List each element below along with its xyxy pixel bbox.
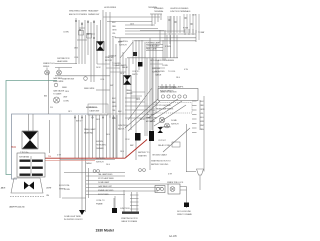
svg-text:GAS TANK: GAS TANK <box>53 77 63 80</box>
svg-text:HCD: HCD <box>11 147 16 149</box>
svg-text:WIRE TO FRAME: WIRE TO FRAME <box>177 213 192 216</box>
svg-text:AND MOTOR WIRES: AND MOTOR WIRES <box>69 13 88 16</box>
svg-text:AT FRAME: AT FRAME <box>146 120 156 123</box>
spark plugs <box>45 68 88 81</box>
svg-text:TO BAT: TO BAT <box>198 31 205 34</box>
instrument panel box <box>158 89 198 101</box>
text labels dash comb <box>57 121 106 164</box>
svg-text:INSTRUMENT PANEL LAMPS: INSTRUMENT PANEL LAMPS <box>158 86 184 89</box>
svg-text:JADE: JADE <box>1 187 6 190</box>
spare tire lamp circle <box>168 184 187 194</box>
svg-text:RED: RED <box>112 26 117 28</box>
battery lead right <box>186 187 188 209</box>
svg-text:BEAM IND: BEAM IND <box>84 132 93 135</box>
svg-text:HORN BTN: HORN BTN <box>96 145 106 147</box>
svg-text:18 G: 18 G <box>176 77 180 79</box>
svg-text:TAIL LAMP FEED: TAIL LAMP FEED <box>98 173 113 176</box>
harness diagonals to instrument panel <box>148 99 186 126</box>
svg-text:CONN: CONN <box>63 101 69 103</box>
svg-text:LIGHTING FUSE AND: LIGHTING FUSE AND <box>170 7 189 10</box>
horn feed wires <box>29 114 34 131</box>
svg-text:LIGHTING: LIGHTING <box>119 41 128 43</box>
starter cable towers <box>124 190 139 212</box>
svg-text:WIRE CONN: WIRE CONN <box>146 118 157 120</box>
svg-text:FUSE AND: FUSE AND <box>154 7 164 10</box>
text labels mid <box>43 32 178 114</box>
wire harness: right-side verticals <box>152 16 204 172</box>
svg-text:BATTERY TO: BATTERY TO <box>138 151 150 154</box>
svg-text:BRN: BRN <box>112 118 117 120</box>
svg-text:IN CENTER OF BODY: IN CENTER OF BODY <box>64 219 83 221</box>
svg-text:JUNCTION: JUNCTION <box>118 125 128 127</box>
svg-text:FEED: FEED <box>62 87 68 89</box>
svg-text:CABLE: CABLE <box>155 74 162 77</box>
svg-text:COWL TO: COWL TO <box>96 200 105 202</box>
svg-text:DASH: DASH <box>86 162 92 165</box>
svg-text:IGNITION: IGNITION <box>152 68 161 70</box>
svg-text:GROUND CABLE: GROUND CABLE <box>152 154 168 157</box>
svg-text:DOME LAMP: DOME LAMP <box>98 181 110 184</box>
svg-text:AMMETER: AMMETER <box>86 106 96 109</box>
svg-text:MOTOR: MOTOR <box>105 60 113 62</box>
svg-text:SW: SW <box>110 85 113 87</box>
svg-text:RELAY: RELAY <box>122 66 129 69</box>
svg-text:GAS TANK UNIT: GAS TANK UNIT <box>98 185 113 188</box>
voltage regulator box <box>17 153 45 177</box>
svg-text:DOME: DOME <box>171 120 177 122</box>
terminal comb group 1 <box>150 14 162 26</box>
terminal comb group 2 <box>168 16 180 33</box>
ammeter <box>54 83 60 103</box>
blue-gray wire rectangle <box>12 114 96 179</box>
svg-text:CONN: CONN <box>64 189 70 191</box>
svg-text:TO COIL: TO COIL <box>168 71 176 73</box>
svg-text:HORN WIRES: HORN WIRES <box>104 7 117 9</box>
svg-text:BRN: BRN <box>200 121 205 123</box>
wire: long horizontal runs top right <box>103 17 196 42</box>
svg-text:SPARE TIRE LOCK: SPARE TIRE LOCK <box>167 181 184 184</box>
wire harness: center vertical bundle <box>103 10 158 170</box>
svg-text:BLOCK: BLOCK <box>118 129 125 131</box>
svg-text:FEED WIRE: FEED WIRE <box>84 88 95 90</box>
frame rail vertical right <box>186 124 188 172</box>
tail lamp housing <box>1 178 53 209</box>
svg-text:DOME FEED: DOME FEED <box>160 127 172 129</box>
wire: mid horizontal runs <box>55 35 178 160</box>
red horn feed wire <box>45 140 147 159</box>
svg-text:TO DASH: TO DASH <box>53 93 62 96</box>
svg-text:LAMP PIN 206 230: LAMP PIN 206 230 <box>9 206 25 209</box>
svg-text:DASH UNIT: DASH UNIT <box>90 110 101 113</box>
text labels top right <box>112 7 196 39</box>
svg-text:RELAY CONN: RELAY CONN <box>158 144 170 147</box>
dome lamp bowtie small <box>158 127 164 133</box>
arrow terminal <box>79 210 85 215</box>
svg-text:16 G: 16 G <box>106 164 110 166</box>
stop light switch dashed box <box>154 103 192 114</box>
svg-text:STARTER SW: STARTER SW <box>62 78 74 81</box>
svg-text:4 TH: 4 TH <box>168 174 173 176</box>
svg-text:CONN: CONN <box>162 65 168 67</box>
svg-text:PARK LAMP: PARK LAMP <box>146 48 157 51</box>
wire harness: dash panel comb <box>74 115 117 158</box>
svg-text:JUNCTION: JUNCTION <box>120 208 130 210</box>
svg-text:4 TH: 4 TH <box>57 155 62 157</box>
svg-text:JUNCTION TERMINALS: JUNCTION TERMINALS <box>170 10 191 13</box>
svg-text:16 G: 16 G <box>120 73 124 75</box>
svg-text:STOP LIGHT AND: STOP LIGHT AND <box>156 104 172 107</box>
svg-text:RED: RED <box>200 105 205 107</box>
light switch pivot blob <box>133 52 137 56</box>
green lighting circuit wire rectangle <box>6 81 57 175</box>
svg-text:CONDUIT: CONDUIT <box>108 56 117 58</box>
terminal comb group 3 <box>184 14 199 40</box>
svg-text:DIMMER: DIMMER <box>96 148 104 150</box>
text labels right column extra <box>146 86 184 126</box>
cutout relay blob <box>135 133 141 141</box>
svg-text:B R G Y: B R G Y <box>76 121 83 123</box>
starter bowtie symbol <box>97 42 105 51</box>
svg-text:GRN: GRN <box>200 109 205 111</box>
svg-text:R H HEADLAMP: R H HEADLAMP <box>146 42 161 45</box>
svg-text:GRN: GRN <box>112 106 117 108</box>
svg-text:DIMMER SW: DIMMER SW <box>88 14 99 16</box>
svg-text:LIGHT: LIGHT <box>46 188 52 190</box>
svg-text:REAR LAMP WIRES: REAR LAMP WIRES <box>156 108 174 111</box>
svg-text:FEED WIRE: FEED WIRE <box>53 81 64 83</box>
junction blob bottom <box>112 208 117 213</box>
misc small wiring annotations <box>50 28 189 167</box>
svg-text:TERMINAL: TERMINAL <box>154 10 164 13</box>
wire: ladder lines bottom center <box>62 168 168 208</box>
svg-text:L H HEADLAMP: L H HEADLAMP <box>146 45 160 48</box>
svg-text:GAS GAUGE: GAS GAUGE <box>53 90 65 93</box>
terminal label box <box>88 104 108 115</box>
svg-text:WINDSHIELD WIPER: WINDSHIELD WIPER <box>69 11 88 13</box>
svg-text:COWL: COWL <box>64 185 71 187</box>
svg-text:4 THW: 4 THW <box>165 46 171 48</box>
svg-text:INSTRUMENTS: INSTRUMENTS <box>160 91 174 93</box>
svg-text:RED: RED <box>112 102 117 104</box>
svg-text:BODY FEED: BODY FEED <box>98 194 109 196</box>
svg-text:LAMPS: LAMPS <box>126 92 133 95</box>
svg-text:SPARK PLUG: SPARK PLUG <box>43 62 55 65</box>
extra tie wires <box>97 64 165 96</box>
svg-text:CONN: CONN <box>63 32 69 34</box>
fuse blob <box>149 131 154 141</box>
svg-text:STARTER: STARTER <box>138 155 147 158</box>
svg-text:DOME LIGHT WIRE: DOME LIGHT WIRE <box>64 216 81 218</box>
svg-text:LIGHTING: LIGHTING <box>96 158 105 160</box>
svg-text:NO 14 GROUND: NO 14 GROUND <box>177 211 192 213</box>
svg-text:4 TH: 4 TH <box>184 69 189 71</box>
harness connector blocks <box>79 31 84 36</box>
svg-text:HEADLAMP: HEADLAMP <box>88 10 99 13</box>
distributor lead wire <box>48 72 50 114</box>
ignition coil bowtie symbol <box>124 76 132 85</box>
svg-text:NO 14 BLACK WIRE ASSEM: NO 14 BLACK WIRE ASSEM <box>150 59 174 62</box>
svg-text:PANEL: PANEL <box>126 89 133 92</box>
svg-text:16 W: 16 W <box>140 119 144 121</box>
horn bowtie symbol large <box>22 131 38 149</box>
svg-text:GRN: GRN <box>112 30 117 32</box>
svg-text:FUSE: FUSE <box>183 28 189 30</box>
wire harness: top-left vertical bundle <box>60 18 101 212</box>
right margin wire labels with ticks <box>192 101 197 133</box>
ground cable diagonal <box>163 128 190 152</box>
svg-text:STARTING MOTOR: STARTING MOTOR <box>121 217 138 220</box>
svg-text:14 W: 14 W <box>96 67 100 69</box>
relay box small <box>172 142 180 147</box>
svg-text:12 W: 12 W <box>125 139 129 141</box>
svg-text:DISTR: DISTR <box>132 74 138 76</box>
wire: diagonals <box>120 42 160 131</box>
svg-text:SW BAT AM: SW BAT AM <box>19 155 29 158</box>
svg-text:STOP LAMP FEED: STOP LAMP FEED <box>98 177 114 180</box>
svg-text:STARTING MOTOR TO: STARTING MOTOR TO <box>151 160 171 163</box>
svg-text:TAIL LAMP: TAIL LAMP <box>146 113 156 116</box>
svg-text:FRAME: FRAME <box>96 203 103 206</box>
wire down to regulator <box>49 120 51 153</box>
cowl lamps with X <box>159 117 169 128</box>
svg-text:SWITCH: SWITCH <box>119 45 127 47</box>
trunk connector with pins <box>155 186 165 193</box>
svg-text:1930 Model: 1930 Model <box>96 229 114 233</box>
svg-text:COIL TO: COIL TO <box>132 71 140 73</box>
svg-text:FRAME GROUND: FRAME GROUND <box>98 189 114 192</box>
text labels top left <box>69 6 158 44</box>
svg-text:CUTOUT: CUTOUT <box>158 140 167 142</box>
junction block small square <box>138 62 143 67</box>
svg-text:TO HORN: TO HORN <box>112 63 121 65</box>
svg-text:DISTRIBUTOR: DISTRIBUTOR <box>57 58 70 60</box>
svg-text:SWITCH: SWITCH <box>171 124 179 126</box>
svg-text:BATTERY GROUND: BATTERY GROUND <box>151 163 169 166</box>
svg-text:WIRES: WIRES <box>43 66 50 68</box>
svg-text:AM: AM <box>44 95 47 98</box>
svg-text:PANEL LAMP: PANEL LAMP <box>84 128 96 131</box>
svg-text:SWITCH: SWITCH <box>96 162 104 164</box>
svg-text:14 R: 14 R <box>96 119 100 121</box>
svg-text:HEAD WIRE: HEAD WIRE <box>57 60 68 63</box>
svg-text:TH: TH <box>48 156 51 158</box>
svg-text:CABLE TO FRAME: CABLE TO FRAME <box>121 220 138 223</box>
svg-text:AA-105: AA-105 <box>169 235 177 238</box>
text labels right column <box>138 101 205 176</box>
oil filler funnel symbol <box>186 171 196 173</box>
svg-text:IGN SW: IGN SW <box>96 141 103 143</box>
svg-text:NO 12 RED: NO 12 RED <box>155 71 165 73</box>
text labels ladder <box>64 173 192 223</box>
